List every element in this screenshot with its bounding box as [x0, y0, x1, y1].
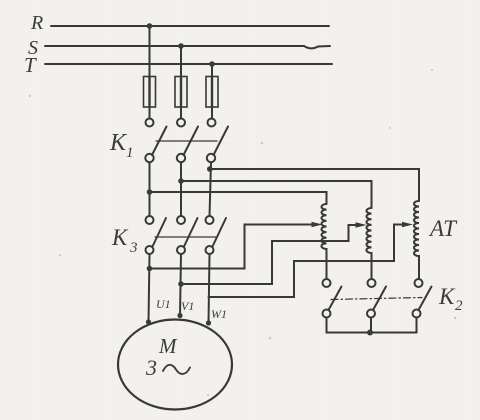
contactor K1 pole 1 — [145, 119, 166, 163]
contactor K2 pole 1 — [323, 279, 342, 318]
node bus R junction — [147, 23, 153, 29]
bus R — [51, 25, 329, 27]
wire K2 pole3 to star bus — [416, 318, 418, 333]
wire stair phase3 to AT tap3 — [209, 225, 404, 298]
arrow head AT tap1 — [312, 222, 323, 227]
node bus S junction — [178, 43, 184, 49]
contactor K3 pole 3 — [206, 216, 227, 254]
arrow head AT tap3 — [402, 222, 413, 227]
contactor K1 pole 2 — [177, 119, 198, 163]
K3 linkage bar — [155, 236, 216, 238]
node motor terminal V1 — [177, 313, 182, 318]
contactor K3 pole 1 — [146, 216, 167, 254]
wire stair phase2 to AT tap2 — [181, 225, 357, 284]
paper speck — [269, 337, 271, 339]
contactor K3 pole 2 — [177, 216, 198, 254]
wire tap phase3 to AT coil3 top — [210, 169, 419, 201]
node motor terminal U1 — [146, 319, 151, 324]
wire K1 pole1 to K3 — [149, 162, 151, 216]
fuse F2 — [175, 77, 187, 108]
arrow head AT tap2 — [356, 222, 367, 227]
wire K2 pole2 to star bus — [370, 318, 372, 333]
svg-text:К: К — [111, 225, 129, 250]
node bus T junction — [209, 61, 215, 67]
paper speck — [29, 95, 31, 97]
contactor K2 pole 3 — [413, 279, 432, 318]
svg-text:W1: W1 — [211, 307, 227, 321]
svg-text:R: R — [30, 12, 43, 34]
node K2 star junction — [367, 330, 373, 336]
node motor terminal W1 — [206, 320, 211, 325]
wire fuse1 to K1 — [149, 107, 151, 119]
svg-text:1: 1 — [126, 145, 134, 161]
K2 star point bus — [327, 332, 417, 334]
autotransformer AT coil 1 — [321, 204, 326, 279]
paper speck — [59, 254, 61, 256]
wire tap phase2 to AT coil2 top — [181, 181, 372, 208]
node tap phase1 junction — [147, 189, 153, 195]
wire K1 pole3 to K3 — [210, 162, 212, 216]
node stair phase2 junction — [178, 281, 184, 287]
label K2 — [438, 284, 463, 314]
wire stair phase1 to AT tap1 — [150, 225, 313, 269]
wire phase3 drop from T — [211, 64, 213, 77]
svg-text:U1: U1 — [156, 297, 171, 311]
wire K3 pole1 to motor U1 — [149, 254, 150, 322]
svg-text:M: M — [158, 334, 178, 358]
svg-text:3: 3 — [129, 240, 138, 256]
label K3 — [111, 225, 138, 256]
svg-text:3: 3 — [145, 355, 157, 380]
paper speck — [431, 69, 433, 71]
wire fuse3 to K1 — [211, 107, 213, 119]
wire K3 pole3 to motor W1 — [209, 254, 210, 323]
autotransformer AT coil 2 — [366, 208, 371, 279]
K1 linkage bar — [156, 140, 217, 142]
motor tilde symbol — [163, 365, 190, 374]
wire K2 pole1 to star bus — [326, 318, 328, 333]
contactor K1 pole 3 — [207, 119, 228, 163]
svg-text:T: T — [24, 53, 37, 77]
wire K1 pole2 to K3 — [180, 162, 182, 216]
motor M circle — [118, 320, 232, 410]
svg-text:К: К — [438, 284, 456, 309]
bus S — [45, 46, 330, 48]
node tap phase3 junction — [207, 166, 213, 172]
svg-text:АТ: АТ — [428, 216, 458, 241]
wire phase2 drop from S — [180, 46, 182, 77]
wire phase1 drop from R — [149, 26, 151, 77]
node tap phase2 junction — [178, 178, 184, 184]
wire tap phase1 to AT coil1 top — [150, 192, 327, 204]
fuse F3 — [206, 77, 218, 108]
autotransformer AT coil 3 — [414, 201, 419, 279]
contactor K2 pole 2 — [367, 279, 386, 318]
paper speck — [454, 317, 456, 319]
svg-text:2: 2 — [455, 298, 463, 314]
svg-text:V1: V1 — [181, 299, 194, 313]
paper speck — [389, 127, 391, 129]
node stair phase1 junction — [147, 266, 153, 272]
wire K3 pole2 to motor V1 — [180, 254, 181, 316]
fuse F1 — [144, 77, 156, 108]
bus T — [45, 63, 332, 65]
label K1 — [109, 130, 134, 161]
K2 linkage bar — [331, 298, 422, 300]
wire fuse2 to K1 — [180, 107, 182, 119]
paper speck — [207, 394, 209, 396]
paper speck — [261, 142, 263, 144]
